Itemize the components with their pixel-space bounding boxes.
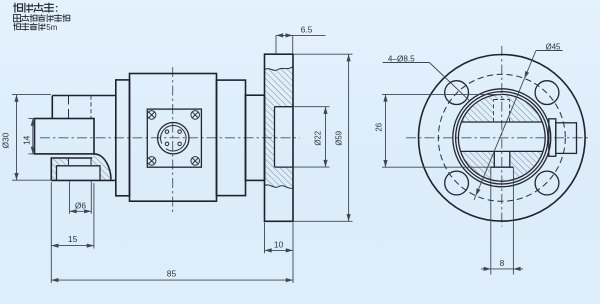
hub top section <box>52 96 116 119</box>
svg-text:10: 10 <box>274 239 284 249</box>
mounting flange <box>265 54 294 221</box>
dimension D59 flange diameter <box>294 53 353 55</box>
shaft flat bottom chord <box>461 150 544 152</box>
dimension 10 flange thickness <box>264 223 266 254</box>
hole edges through foot wall <box>69 158 92 166</box>
bolt hole bottom-left <box>445 171 469 195</box>
svg-text:8: 8 <box>500 258 505 268</box>
hidden hole edge right in hub <box>90 96 92 119</box>
right connector tab block <box>556 123 577 154</box>
dimension 15 foot length <box>50 182 52 283</box>
svg-text:Ø6: Ø6 <box>75 200 86 210</box>
bolt hole top-right <box>535 81 559 105</box>
hatch top segment of bore <box>461 94 542 122</box>
svg-text:6.5: 6.5 <box>301 25 313 35</box>
flange outer circle D59 <box>419 55 586 222</box>
flange bore / shaft D22 <box>275 107 294 167</box>
right bearing collar <box>217 80 246 196</box>
svg-text:14: 14 <box>21 135 31 145</box>
dimension 85 overall length <box>51 279 293 281</box>
connector socket outer circle <box>158 123 189 154</box>
hub foot section outline <box>51 154 116 181</box>
dimension 26 bore with keyway <box>382 93 502 95</box>
connector socket inner ring with keying gap <box>161 126 186 151</box>
right neck cylinder <box>246 95 265 180</box>
bolt hole bottom-right <box>535 171 559 195</box>
svg-text:4–Ø8.5: 4–Ø8.5 <box>388 54 415 63</box>
centerline main horizontal axis left view <box>40 137 300 139</box>
dimension D6 hole <box>69 181 71 213</box>
bolt hole top-left <box>445 81 469 105</box>
top hidden keyway <box>494 100 510 123</box>
dimension D22 shaft bore <box>294 106 330 108</box>
boss ring outer <box>453 89 551 187</box>
hatch bottom segment of bore <box>461 151 544 181</box>
flange break line top <box>265 67 294 71</box>
left bearing collar <box>116 80 130 196</box>
svg-text:Ø22: Ø22 <box>313 131 322 146</box>
shaft flat top chord <box>461 121 542 123</box>
label: wiring note line1 接线方式: <box>14 3 23 12</box>
svg-text:Ø30: Ø30 <box>1 132 11 148</box>
svg-text:Ø59: Ø59 <box>334 131 343 146</box>
dimension D30 overall hub diameter <box>12 94 51 96</box>
hole edge left in hub <box>68 96 70 119</box>
dimension 6.5 flange offset <box>275 35 277 54</box>
svg-text:26: 26 <box>374 123 383 132</box>
hub foot hatch <box>51 154 111 181</box>
label: wiring note line2 four-core shielded cable <box>14 15 21 22</box>
input stub shaft D14 <box>35 119 95 154</box>
flange break line bottom <box>265 185 294 188</box>
dimension 8 keyway width <box>490 167 492 274</box>
bolt circle D45 dashed <box>438 74 565 201</box>
svg-text:85: 85 <box>167 269 177 279</box>
svg-text:5m: 5m <box>46 23 57 32</box>
bottom keyway slot shoulder <box>491 166 514 168</box>
centerline right view vertical axis <box>501 46 503 227</box>
bore circle inner <box>458 94 545 181</box>
hub foot cavity <box>57 166 101 181</box>
label: wiring note line3 standard length 5m <box>14 23 21 30</box>
centerline body vertical axis <box>172 67 174 215</box>
centerline right view horizontal axis <box>406 137 591 139</box>
dimension 14 stub diameter <box>29 118 35 120</box>
connector pins <box>165 130 169 134</box>
svg-text:15: 15 <box>68 234 78 244</box>
right connector tab plate <box>549 119 556 157</box>
svg-text:Ø45: Ø45 <box>546 42 561 51</box>
flange cross-section hatch <box>265 67 294 189</box>
sensor body block <box>130 74 217 202</box>
connector plate <box>147 109 201 167</box>
connector plate screws <box>147 111 156 120</box>
bottom keyway slot tier1 <box>494 151 510 167</box>
boss ring middle <box>456 92 548 184</box>
